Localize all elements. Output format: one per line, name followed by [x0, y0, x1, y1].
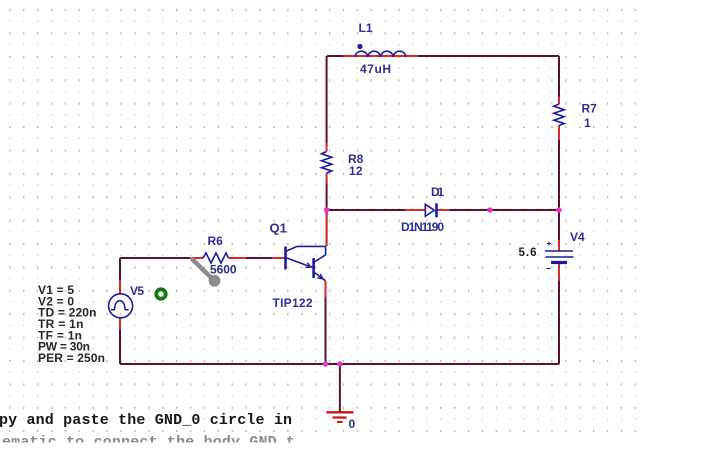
- svg-text:L1: L1: [359, 21, 373, 35]
- svg-text:PER = 250n: PER = 250n: [38, 351, 105, 365]
- svg-text:47uH: 47uH: [360, 62, 391, 76]
- svg-text:12: 12: [349, 164, 363, 178]
- svg-text:R7: R7: [582, 102, 598, 116]
- svg-text:py and paste the GND_0 circle: py and paste the GND_0 circle in: [0, 412, 292, 429]
- svg-text:D1N1190: D1N1190: [401, 220, 444, 234]
- svg-text:R6: R6: [208, 234, 224, 248]
- svg-text:0: 0: [349, 417, 356, 431]
- svg-text:D1: D1: [431, 185, 444, 199]
- svg-text:5600: 5600: [210, 263, 237, 277]
- svg-text:TIP122: TIP122: [273, 296, 313, 310]
- svg-text:Q1: Q1: [270, 221, 287, 236]
- svg-text:V4: V4: [570, 230, 585, 244]
- svg-text:5.6: 5.6: [519, 247, 537, 259]
- svg-text:V5: V5: [130, 284, 144, 298]
- svg-text:1: 1: [584, 116, 591, 130]
